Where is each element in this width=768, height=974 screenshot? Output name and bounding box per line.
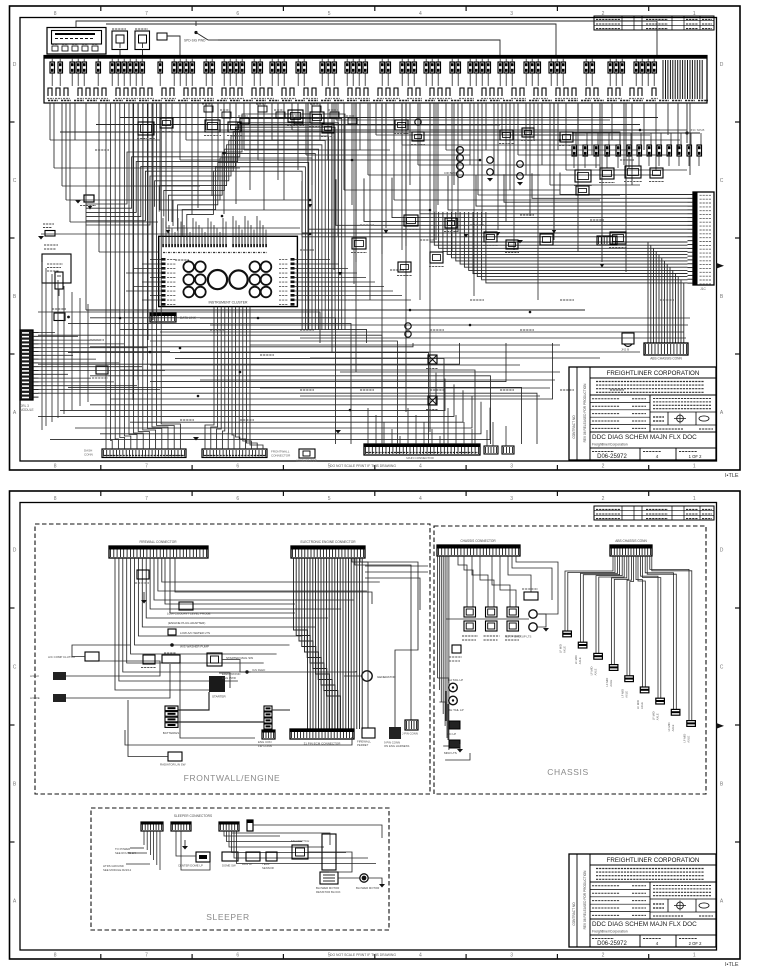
wire EB5 [305,558,319,729]
component temp sensor [266,852,277,861]
instrument cluster pin number row [163,252,167,254]
terminal T48 [520,88,524,96]
terminal T45 [490,88,494,96]
wire EB3 [299,558,313,729]
node power bus splice [685,131,688,134]
wire bus B10 [38,343,460,364]
fuse F31 [320,62,325,73]
fuse F5 [82,62,87,73]
wire SL6 [159,831,161,870]
svg-text:6: 6 [236,953,239,959]
sleeper connector S2 [171,822,191,831]
component M23 [412,132,424,141]
wire label L2 [130,199,144,201]
wire V2 [53,103,55,168]
wire BAND7 [155,140,326,330]
fuse F14 [172,62,177,73]
wire V86 [457,103,459,232]
svg-text:DO NOT SCALE PRINT IF THIS DRA: DO NOT SCALE PRINT IF THIS DRAWING [330,464,396,468]
pin 12 connector J1 [688,236,694,238]
wire H36 [566,169,687,171]
wire CH5 [444,556,446,726]
fuse FA4 [605,145,610,156]
wire bundle CV4 [222,307,224,449]
wire V69 [577,103,579,130]
svg-text:I•TLE: I•TLE [725,962,739,968]
wire V97 [577,103,579,252]
svg-text:RDG LP: RDG LP [242,862,253,866]
svg-text:NOT P BACKUP LTS: NOT P BACKUP LTS [505,635,532,639]
pin 15 connector J1 [688,247,694,249]
svg-text:ABS CHASSIS CONN: ABS CHASSIS CONN [650,357,682,361]
ABS chassis connector P5 [610,545,652,556]
wire SB6 [237,831,377,864]
pin 4 connector J1 [688,205,694,207]
wire ABS-harness 7 [456,212,688,261]
wire V56 [469,103,471,165]
component M16 [575,170,591,182]
wire EB19 [342,558,344,729]
wire H29 [394,199,600,201]
instrument cluster right pin column [291,258,295,261]
fuse F10 [128,62,133,73]
terminal T39 [430,88,434,96]
wire V15 [165,103,167,228]
svg-text:7: 7 [145,953,148,959]
wire V58 [485,103,487,150]
ABS sensor connector X9 [687,721,696,727]
fuse F25 [258,62,263,73]
wire LB3 [115,103,118,449]
svg-text:LOW A/C WATER LTS: LOW A/C WATER LTS [180,631,210,635]
wire frontwall bottom bus [125,730,352,745]
fuse symbol X1 [428,355,437,364]
component U14 [276,112,285,118]
svg-text:3: 3 [510,953,513,959]
svg-text:D06-25972: D06-25972 [597,454,627,460]
fuse F17 [190,62,195,73]
relay K507621 [507,621,519,631]
svg-text:DDC DIAG SCHEM MAJN FLX DOC: DDC DIAG SCHEM MAJN FLX DOC [592,921,697,928]
wire H26 [578,129,687,131]
wire V26 [235,103,237,204]
wire SL1 [143,831,145,845]
component M6 [310,112,324,123]
wire label L6 [300,329,314,331]
wire V74 [631,103,633,185]
wire V23 [217,103,219,180]
pin 3 connector J5 [33,339,39,341]
terminal T11 [140,88,144,96]
svg-text:JNC SPLB: JNC SPLB [690,128,704,132]
fuse F29 [296,62,301,73]
fuse F1 [50,62,55,73]
component a/c comp clutch [85,652,99,661]
wire V28 [249,103,251,190]
fuse F22 [234,62,239,73]
wire MB11 [260,387,550,389]
wire V24 [223,103,225,214]
wire H27 [344,189,560,191]
wire ABS-harness 10 [469,212,688,270]
wire label L9 [430,329,444,331]
component U13 [258,106,267,112]
component starter magnetic switch [207,653,222,666]
svg-text:STARTER: STARTER [212,695,227,699]
title block sidebar columns [576,854,578,947]
wire LB9 [143,103,156,449]
wire VM4 [385,103,387,228]
wire FW10 [150,558,341,609]
component fan switch [292,845,308,859]
wire V87 [481,103,483,226]
data link connector J39 [150,313,176,322]
svg-text:1: 1 [693,953,696,959]
wire V60 [501,103,503,135]
fuse F68 [646,62,651,73]
component cigar lighter barrel [55,272,63,289]
fuse F62 [590,62,595,73]
wire H20 [376,134,585,136]
pin 10 connector J5 [33,366,39,368]
terminal T19 [222,88,226,96]
wire H33 [494,174,660,176]
wire LB8 [138,103,149,449]
wire V1 [49,103,51,140]
wire H19 [336,119,610,121]
wire BAND14 [187,171,302,330]
relay K2 [135,28,148,30]
svg-text:7: 7 [145,464,148,470]
wire label L11 [520,329,534,331]
svg-text:ABS CHASSIS CONN: ABS CHASSIS CONN [615,539,647,543]
battery pack 2 [264,706,272,711]
wire ABS-harness 8 [460,212,687,264]
wire label L23 [520,214,534,216]
pin 6 connector J1 [688,213,694,215]
svg-text:JN2 B: JN2 B [621,348,629,352]
svg-text:CONNECTOR: CONNECTOR [271,454,291,458]
wire H15 [258,159,480,161]
svg-text:LF MID: LF MID [667,723,671,732]
wire H1 [50,139,160,141]
wire label L22 [470,224,484,226]
title block legal paragraph [590,394,716,396]
pin 16 connector J1 [688,251,694,253]
wire V77 [667,103,669,135]
wire V27 [243,103,245,150]
wire EB21 [348,558,350,729]
wire LB7 [134,103,144,449]
component M11 [430,252,443,263]
fuse F36 [357,62,362,73]
wire FW1 [115,558,225,690]
svg-text:ENG PWR: ENG PWR [222,676,236,680]
terminal T37 [408,88,412,96]
wire ignition feed 2 [76,21,657,56]
wire label L19 [240,419,254,421]
ground chassis lamps [457,749,463,753]
wire engine right drops [355,558,411,720]
terminal T12 [148,88,152,96]
fuse F63 [608,62,613,73]
ground firewall G10 [141,600,147,604]
wire fan switch to resistor [308,852,352,872]
component M14 [506,240,518,249]
svg-text:7: 7 [145,11,148,17]
terminal T53 [572,88,576,96]
wire cluster feeds top [162,218,164,236]
wire MB7 [310,357,600,359]
wire SL5 [156,831,158,865]
wire EB25 [359,558,361,729]
svg-text:SPD-SIG PWD: SPD-SIG PWD [184,39,206,43]
wire LR3 [51,274,53,422]
sleeper connector S4 [247,820,253,831]
wire V76 [655,103,657,170]
svg-text:CIR BRKR: CIR BRKR [444,171,457,175]
wire V35 [297,103,299,170]
wire cluster right stubs [295,259,331,261]
wire bus B1 [38,312,320,343]
pin 18 connector J5 [33,396,39,398]
wire headlamp feed [41,233,310,235]
lamp DS3 [457,163,464,170]
wire VM12 [537,103,539,300]
component cigar lighter box [44,244,58,246]
terminal T30 [334,88,338,96]
title block approvals grid [590,431,716,433]
wire V11 [142,103,144,360]
wire VM3 [369,103,371,300]
wire H32 [478,194,620,196]
wire bus B5 [38,335,382,444]
wire EB24 [356,558,358,729]
svg-text:1: 1 [693,464,696,470]
title block drawing number row [639,935,641,947]
svg-text:SENSOR: SENSOR [262,866,274,870]
wire MB12 [300,395,540,397]
wire V78 [677,103,679,155]
fuse F23 [240,62,245,73]
fuse F6 [96,62,101,73]
wire H7 [86,309,150,311]
ground G3 [193,437,199,441]
svg-text:C: C [720,178,724,184]
wire V16 [171,103,173,222]
wire H25 [534,139,620,141]
ground G5 [517,240,523,244]
wire BAND5 [86,132,332,330]
terminal T49 [534,88,538,96]
svg-text:LH TAIL LP: LH TAIL LP [448,678,463,682]
wire a/c links [66,661,160,676]
wire long trunk H3 [60,132,620,145]
component M2 [160,118,173,128]
svg-text:INSTRUMENT CLUSTER: INSTRUMENT CLUSTER [209,301,248,305]
wire V36 [305,103,307,155]
wire V80 [307,103,309,278]
fuse F3 [70,62,75,73]
fuse FB3 [657,145,662,156]
terminal T18 [208,88,212,96]
wire V34 [291,103,293,130]
fuse F56 [530,62,535,73]
wire EB12 [324,558,338,729]
terminal T16 [192,88,196,96]
wire V22 [211,103,213,196]
svg-text:Freightliner/Corporation: Freightliner/Corporation [592,443,628,447]
battery pack 1 [165,706,178,711]
svg-text:LF MID: LF MID [559,644,563,653]
component park brake switch [84,195,94,202]
fuse panel right dense wire block [662,60,664,99]
wire EB16 [334,558,336,729]
wire V13 [152,103,154,320]
component M20 [576,186,589,195]
fuse F11 [134,62,139,73]
component trailer socket [524,592,538,600]
svg-text:AXLE: AXLE [578,657,582,664]
wire VM11 [513,103,515,250]
fuse F43 [424,62,429,73]
component horn button [415,119,421,125]
svg-text:CONTRACT NO: CONTRACT NO [572,415,576,439]
fuse F21 [228,62,233,73]
wire V48 [401,103,403,145]
wire bundle into J1 upper pins [560,173,688,195]
terminal T15 [184,88,188,96]
svg-text:4: 4 [419,464,422,470]
svg-text:8: 8 [54,11,57,17]
fuse F38 [380,62,385,73]
component M1 [138,122,154,135]
wire V94 [505,103,507,222]
wire bus B19 [38,384,454,416]
wire V33 [283,103,285,200]
component diode pack [622,333,634,344]
fuse F32 [326,62,331,73]
svg-text:GENERATOR: GENERATOR [377,675,397,679]
wire EB11 [321,558,335,729]
wire bundle CV3 [217,307,222,449]
ABS sensor connector X6 [640,687,649,693]
wire ABS-harness 1 [430,212,688,242]
ground sleeper G20 [182,846,188,850]
wire engine to right edge [365,565,428,567]
wire V70 [591,103,593,155]
terminal T4 [78,88,82,96]
wire H22 [430,129,660,131]
wire BAND12 [178,162,309,330]
wire H21 [402,144,620,146]
svg-text:DO NOT SCALE PRINT IF THIS DRA: DO NOT SCALE PRINT IF THIS DRAWING [330,953,396,957]
wire label L3 [175,259,189,261]
wire label L12 [560,299,574,301]
svg-text:AXLE: AXLE [671,724,675,731]
title block approvals grid [590,918,716,920]
component dome lamp [196,852,210,862]
spare fuse holder [157,33,167,40]
fuse F19 [210,62,215,73]
terminal T46 [498,88,502,96]
pin 4 connector J5 [33,343,39,345]
terminal T38 [416,88,420,96]
fuse F16 [184,62,189,73]
wire CHM2 [464,556,473,607]
wire bus B13 [150,343,506,382]
wire FW9 [146,558,328,618]
wire LR7 [79,298,81,406]
wire label L26 [120,309,134,311]
component radiator switch [168,752,182,761]
title block sidebar columns [576,367,578,460]
svg-text:2: 2 [602,496,605,502]
wire V52 [437,103,439,205]
wire BAND9 [164,149,319,330]
wire label L21 [420,239,434,241]
pin 12 connector J5 [33,373,39,375]
terminal T42 [460,88,464,96]
instrument cluster top pin comb right [232,236,234,247]
wire CH4 [442,556,444,714]
wire VM8 [451,103,453,252]
component U11 [222,112,231,118]
fuse FA5 [616,145,621,156]
wire MB8 [150,364,520,366]
terminal T41 [446,88,450,96]
terminal T20 [230,88,234,96]
svg-text:D: D [720,62,724,68]
wire MB4 [300,337,686,339]
wire CH6 [446,556,448,738]
wire ABS8 [645,556,673,709]
svg-text:BLOWER MOTOR: BLOWER MOTOR [356,886,379,890]
wire H12 [206,129,420,131]
blower motor M [362,876,367,881]
wire LB5 [124,103,130,449]
wire label L8 [390,269,404,271]
wire splice riser [686,103,688,133]
wire bundle CV6 [232,307,234,449]
wire V18 [185,103,187,140]
wire EB9 [316,558,330,729]
pin 16 connector J5 [33,389,39,391]
wire end arrows sheet1 [222,152,226,156]
component oil pressure sender [143,655,155,664]
svg-text:REV 06 RELEASED FOR PRODUCTION: REV 06 RELEASED FOR PRODUCTION [583,870,587,930]
wire V21 [205,103,207,130]
wire bus B23 [50,408,490,440]
wire bundle CV11 [250,307,263,449]
svg-text:CONTRACT NO: CONTRACT NO [572,902,576,926]
wire ABS-harness 13 [482,212,688,280]
terminal T36 [394,88,398,96]
wire label L10 [470,299,484,301]
wire BAND8 [159,145,322,330]
wire SB3 [229,831,324,847]
wire chassis trailer feed [508,556,531,592]
wire H17 [292,129,640,131]
svg-text:IGN FEED: IGN FEED [252,668,265,672]
component washer pump [168,629,176,635]
wire V54 [453,103,455,185]
component M18 [625,166,641,178]
wire FW5 [131,558,277,654]
wire V73 [623,103,625,165]
component M5 [288,110,303,122]
component M4 [228,122,241,132]
